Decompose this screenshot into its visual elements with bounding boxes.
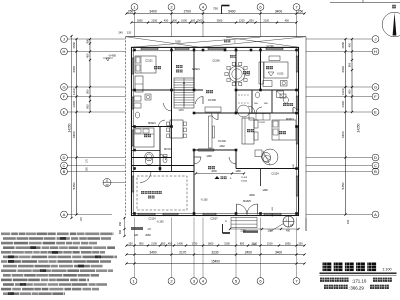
svg-text:2170: 2170 — [179, 250, 186, 254]
room label living — [247, 129, 250, 132]
svg-text:805: 805 — [86, 104, 90, 109]
kitchen island — [264, 62, 288, 78]
svg-text:1500: 1500 — [181, 18, 187, 22]
svg-text:450: 450 — [348, 43, 352, 48]
canopy-1 label — [215, 176, 220, 179]
wardrobe — [135, 76, 143, 92]
svg-text:2700: 2700 — [184, 9, 192, 13]
room label bedroom TL — [154, 66, 157, 69]
svg-text:2100: 2100 — [151, 18, 157, 22]
svg-text:A: A — [63, 212, 66, 217]
carport door arc — [140, 172, 151, 183]
svg-text:850: 850 — [240, 241, 245, 245]
svg-text:250: 250 — [128, 241, 133, 245]
svg-text:1850: 1850 — [137, 18, 143, 22]
svg-text:1480: 1480 — [206, 155, 212, 158]
svg-text:1462: 1462 — [219, 145, 225, 148]
room label dining — [243, 71, 246, 74]
svg-text:M0821: M0821 — [286, 118, 294, 121]
svg-text:1360: 1360 — [267, 230, 273, 233]
svg-text:C: C — [63, 163, 66, 168]
rect table + chairs — [170, 120, 183, 138]
bottom dimension total row — [127, 263, 305, 265]
bottom dimension chain row1 — [127, 245, 305, 247]
svg-text:850: 850 — [139, 241, 144, 245]
outdoor steps — [231, 218, 257, 228]
svg-text:250: 250 — [128, 9, 134, 13]
svg-text:1:100: 1:100 — [383, 268, 392, 272]
svg-text:D: D — [63, 155, 66, 160]
round dining table — [229, 66, 245, 82]
columns — [133, 49, 136, 52]
svg-text:2100: 2100 — [267, 241, 273, 245]
svg-text:250: 250 — [298, 9, 304, 13]
svg-text:M0921: M0921 — [148, 122, 156, 125]
svg-text:3300: 3300 — [72, 66, 76, 73]
toilet — [163, 157, 167, 163]
svg-text:1400: 1400 — [72, 101, 76, 108]
svg-text:3230: 3230 — [211, 250, 218, 254]
svg-text:-0.150: -0.150 — [200, 199, 208, 202]
armchair round — [262, 153, 271, 162]
doors — [164, 103, 172, 111]
svg-text:3400: 3400 — [149, 250, 156, 254]
svg-text:1800: 1800 — [208, 241, 214, 245]
room label storage — [176, 65, 179, 68]
svg-text:800: 800 — [86, 39, 90, 44]
svg-text:D: D — [374, 155, 377, 160]
svg-text:240: 240 — [118, 31, 123, 35]
detail bubble 1/20 left — [103, 179, 111, 187]
tv cabinet — [209, 116, 213, 148]
svg-text:3400: 3400 — [275, 250, 282, 254]
svg-text:H: H — [374, 49, 377, 54]
svg-text:1300: 1300 — [197, 18, 203, 22]
notes text block — [1, 233, 10, 236]
eave / canopy outline — [126, 36, 307, 38]
svg-text:3400: 3400 — [149, 9, 157, 13]
svg-text:1170: 1170 — [178, 109, 184, 112]
svg-text:1530: 1530 — [72, 42, 76, 49]
svg-text::171.10: :171.10 — [352, 279, 367, 284]
svg-text:C2507: C2507 — [210, 218, 218, 221]
svg-text:H: H — [63, 49, 66, 54]
svg-text:C2124: C2124 — [148, 218, 156, 221]
svg-text:4300: 4300 — [72, 131, 76, 138]
entry door M1825 — [237, 204, 248, 215]
svg-text:5400: 5400 — [228, 9, 236, 13]
svg-text:1400: 1400 — [177, 241, 183, 245]
courtyard window — [198, 148, 214, 150]
svg-text:T1409: T1409 — [241, 177, 248, 179]
adjacent sheet edge — [330, 2, 400, 4]
svg-text:2060: 2060 — [145, 234, 151, 237]
sofa set — [242, 118, 254, 144]
room label courtyard — [208, 166, 211, 169]
round lounge chair — [262, 149, 278, 165]
area text line2 — [324, 285, 328, 289]
svg-text:800: 800 — [348, 62, 352, 67]
svg-text:3400: 3400 — [275, 9, 283, 13]
svg-text:250: 250 — [298, 241, 303, 245]
svg-text:2100: 2100 — [263, 18, 269, 22]
north arrow — [382, 12, 400, 37]
svg-text:-0.020: -0.020 — [277, 74, 284, 76]
svg-text:C2726: C2726 — [266, 45, 274, 48]
svg-text:J: J — [63, 36, 65, 41]
svg-text:B: B — [374, 169, 377, 174]
svg-text::366.29: :366.29 — [349, 286, 364, 291]
svg-text:1400: 1400 — [341, 101, 345, 108]
stairs — [174, 78, 194, 108]
laundry fixture — [145, 157, 153, 165]
svg-text:2600: 2600 — [211, 170, 217, 173]
svg-text:130: 130 — [346, 219, 350, 224]
kitchen counters — [259, 62, 264, 84]
svg-text:1100: 1100 — [72, 88, 76, 95]
svg-text:1200: 1200 — [239, 18, 245, 22]
windows left wall — [130, 58, 132, 74]
room label bedroom BL — [144, 134, 147, 137]
svg-text:4300: 4300 — [341, 131, 345, 138]
svg-text:G: G — [62, 84, 65, 89]
svg-text:5450: 5450 — [72, 182, 76, 189]
svg-text:450: 450 — [164, 18, 169, 22]
left axis bubbles — [61, 36, 68, 43]
left dimension chains — [76, 39, 78, 215]
right dimension chains — [345, 39, 347, 215]
title underline — [320, 272, 397, 274]
bed bottom-left — [134, 128, 154, 147]
top dimension chain row1 — [127, 13, 305, 15]
svg-text:-0.150: -0.150 — [156, 221, 164, 224]
svg-text:850: 850 — [249, 18, 254, 22]
windows right wall — [295, 56, 297, 72]
carport dashes — [137, 176, 187, 210]
svg-text:±0.000: ±0.000 — [218, 140, 226, 143]
svg-text:B: B — [63, 169, 66, 174]
svg-text:C2121: C2121 — [145, 60, 153, 63]
tub — [145, 152, 153, 160]
svg-text:G: G — [374, 84, 377, 89]
left bath fixtures — [134, 96, 141, 101]
title: first floor plan — [323, 263, 332, 272]
area text line1 — [320, 278, 324, 282]
svg-text:C2421: C2421 — [259, 122, 266, 124]
svg-text:5450: 5450 — [341, 182, 345, 189]
svg-text:C1506: C1506 — [212, 60, 220, 63]
canopy diagonals — [126, 37, 201, 48]
svg-text:M0721: M0721 — [164, 148, 172, 151]
bed bottom-right — [272, 120, 296, 140]
courtyard dim row — [196, 173, 244, 175]
svg-text:3150: 3150 — [224, 241, 230, 245]
svg-text:1530: 1530 — [341, 42, 345, 49]
svg-text:450: 450 — [348, 89, 352, 94]
bottom axis bubbles — [130, 278, 137, 285]
section mark 1 bottom — [222, 224, 224, 233]
svg-text:1750: 1750 — [192, 241, 198, 245]
bedroom closet — [249, 114, 270, 121]
svg-text:800: 800 — [173, 18, 178, 22]
svg-text:M1825: M1825 — [243, 200, 251, 203]
svg-text:14250: 14250 — [357, 123, 361, 132]
label diantishi — [230, 55, 233, 58]
svg-text:1480: 1480 — [235, 170, 241, 173]
svg-text:C: C — [374, 163, 377, 168]
room label carport — [141, 191, 144, 194]
svg-text:600: 600 — [191, 18, 196, 22]
svg-text:850: 850 — [161, 241, 166, 245]
top dimension chain row2 — [132, 22, 297, 24]
windows top wall — [141, 46, 158, 48]
svg-text:E: E — [374, 109, 377, 114]
svg-text:A: A — [374, 212, 377, 217]
svg-text:750: 750 — [213, 7, 218, 11]
svg-text:450: 450 — [168, 241, 173, 245]
svg-text:2100: 2100 — [240, 230, 246, 233]
svg-text:450: 450 — [86, 53, 90, 58]
svg-text:E: E — [63, 109, 66, 114]
hall closet — [205, 107, 221, 112]
svg-text:450: 450 — [285, 18, 290, 22]
svg-text:450: 450 — [286, 230, 291, 233]
outer walls — [132, 47, 299, 215]
bath walls right — [251, 90, 253, 113]
svg-text:2400: 2400 — [245, 250, 252, 254]
svg-text:J: J — [375, 36, 377, 41]
room label bedroom BR — [279, 131, 282, 134]
svg-text:15400: 15400 — [211, 259, 220, 263]
svg-text:850: 850 — [119, 229, 122, 234]
svg-text:170: 170 — [80, 217, 83, 222]
room label bath — [283, 103, 286, 106]
svg-text:-0.450: -0.450 — [108, 54, 116, 58]
svg-text:1850: 1850 — [285, 241, 291, 245]
interior walls — [171, 47, 173, 126]
svg-text:1480: 1480 — [262, 189, 268, 192]
svg-text:320: 320 — [134, 234, 139, 237]
basin — [284, 97, 289, 103]
svg-text:M0921: M0921 — [192, 68, 200, 71]
svg-text:2100: 2100 — [151, 241, 157, 245]
windows bottom wall — [138, 212, 155, 214]
detail bubble A3 — [283, 216, 294, 227]
canopy labels — [224, 40, 227, 43]
svg-text:C2124: C2124 — [271, 173, 279, 176]
svg-text:5150: 5150 — [175, 41, 181, 44]
svg-text:2800: 2800 — [249, 194, 255, 197]
svg-text:1100: 1100 — [341, 88, 345, 95]
svg-text:3000: 3000 — [217, 18, 223, 22]
svg-text:250: 250 — [119, 221, 122, 226]
svg-text:±0.000: ±0.000 — [208, 98, 216, 102]
top axis bubbles — [131, 4, 138, 11]
svg-text:C5424: C5424 — [241, 181, 248, 183]
right axis bubbles — [372, 36, 379, 43]
room label hall — [206, 90, 209, 93]
bed top-left — [135, 56, 156, 73]
svg-text:3300: 3300 — [341, 66, 345, 73]
svg-text:14250: 14250 — [68, 123, 72, 132]
bottom dimension chain row2 — [127, 254, 305, 256]
svg-text:360: 360 — [86, 89, 90, 94]
room label kitchen — [266, 66, 269, 69]
svg-text:120: 120 — [127, 31, 132, 35]
